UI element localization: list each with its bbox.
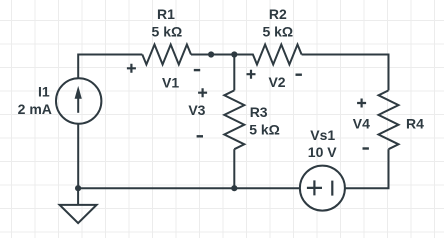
node dot bottom of R3 bbox=[231, 185, 237, 191]
svg-text:2 mA: 2 mA bbox=[18, 101, 52, 117]
node B dot top of R3 bbox=[231, 51, 237, 57]
resistor R3 bbox=[224, 90, 244, 149]
Vs1 plus polarity symbol bbox=[307, 180, 322, 195]
svg-text:5 kΩ: 5 kΩ bbox=[262, 24, 293, 40]
resistor R1 bbox=[142, 45, 191, 65]
svg-text:5 kΩ: 5 kΩ bbox=[152, 24, 183, 40]
node dot bottom-left (ground) bbox=[75, 185, 81, 191]
svg-text:I1: I1 bbox=[38, 83, 50, 99]
svg-text:10 V: 10 V bbox=[308, 144, 337, 160]
current source I1 arrow bbox=[75, 86, 82, 113]
ground stub bbox=[77, 188, 79, 205]
resistor R4 bbox=[379, 90, 399, 149]
svg-text:V2: V2 bbox=[268, 74, 285, 90]
wire R1 to node A to node B bbox=[191, 54, 234, 56]
svg-text:V1: V1 bbox=[162, 74, 179, 90]
V2 minus sign bbox=[296, 73, 302, 75]
wire R3 branch: node B down to R3 bbox=[233, 55, 235, 91]
current source I1 circle bbox=[56, 78, 101, 123]
V1 minus sign bbox=[194, 69, 200, 71]
ground symbol bbox=[60, 205, 97, 223]
V1 plus sign bbox=[127, 64, 136, 73]
wire R3 bottom to bottom wire bbox=[233, 149, 235, 188]
resistor R2 bbox=[234, 45, 301, 65]
V4 plus sign bbox=[357, 99, 366, 108]
V4 minus sign bbox=[363, 147, 369, 149]
Vs1 minus-terminal bar symbol bbox=[331, 181, 333, 196]
V3 plus sign bbox=[198, 88, 207, 97]
wire R2 to top-right corner bbox=[302, 55, 389, 91]
wire I1 bottom to bottom-left node bbox=[77, 123, 79, 188]
svg-text:R4: R4 bbox=[406, 115, 424, 131]
voltage source Vs1 circle bbox=[300, 166, 345, 211]
node dot on top wire after R1 bbox=[208, 51, 214, 57]
wire R4 to bottom-right corner bbox=[345, 149, 389, 188]
V2 plus sign bbox=[247, 70, 256, 79]
wire top-left: I1 top to R1 bbox=[78, 55, 142, 79]
svg-text:Vs1: Vs1 bbox=[310, 127, 335, 143]
V3 minus sign bbox=[197, 135, 203, 137]
wire Vs1 left to bottom nodes bbox=[78, 187, 300, 189]
svg-text:R2: R2 bbox=[269, 6, 287, 22]
svg-text:V3: V3 bbox=[188, 102, 205, 118]
svg-text:R1: R1 bbox=[157, 6, 175, 22]
svg-text:5 kΩ: 5 kΩ bbox=[249, 121, 280, 137]
svg-text:V4: V4 bbox=[353, 115, 370, 131]
svg-text:R3: R3 bbox=[250, 104, 268, 120]
